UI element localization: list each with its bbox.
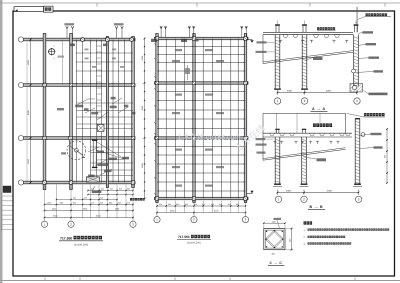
- section B-B stubs above beam: [275, 129, 306, 134]
- svg-text:660: 660: [109, 202, 112, 205]
- plan P1 dimension row 1: [44, 202, 134, 206]
- svg-text:345: 345: [91, 188, 94, 191]
- svg-text:960: 960: [168, 203, 171, 206]
- svg-text:960: 960: [194, 203, 197, 206]
- section A-A title: [311, 107, 328, 112]
- plan P2 under-beam column labels: [151, 39, 157, 42]
- plan P1 horizontal beam row A: [24, 38, 136, 41]
- plan P1 vertical bar detail with caps: [92, 140, 97, 169]
- section B-B right vertical dimension chain: [384, 128, 388, 184]
- section B-B column bases: [273, 184, 362, 187]
- plan P1 leader fan lines: [96, 142, 123, 161]
- section A-A column 3: [354, 35, 359, 87]
- plan P1 column nodes row D: [43, 181, 46, 184]
- section A-A column 1: [275, 35, 280, 89]
- plan P1 horizontal beam row C: [24, 137, 136, 140]
- svg-text:345: 345: [119, 188, 122, 191]
- section A-A top mid label: [317, 27, 336, 31]
- svg-text:2560: 2560: [115, 208, 119, 211]
- section A-A foundation label: [364, 91, 388, 96]
- plan P1 leader fan label: [123, 157, 130, 160]
- left margin mini title table: [2, 186, 13, 231]
- plan P1 left grid bubbles: [18, 37, 23, 42]
- sheet bottom edge line with fold ticks: [0, 278, 400, 281]
- plan P2 horizontal joists: [157, 47, 246, 192]
- section A-A right column footing hatched: [350, 84, 363, 93]
- plan P2 joist end dots: [158, 46, 244, 191]
- detail C-C inner square: [265, 230, 283, 248]
- svg-text:960: 960: [202, 203, 205, 206]
- plan P2 bottom beam: [155, 197, 249, 199]
- plan P1 dimension row 3 overall: [44, 215, 134, 219]
- plan P1 annotation cluster lower: [88, 147, 112, 175]
- svg-text:960: 960: [159, 203, 162, 206]
- plan P1 annotation cluster upper leaders: [75, 98, 128, 120]
- svg-text:B: B: [320, 205, 323, 209]
- plan P1 dashed circle detail: [67, 141, 86, 160]
- svg-text:2640: 2640: [52, 208, 56, 211]
- plan P1 vertical beam grid line mid: [106, 37, 108, 188]
- section B-B column 3 top cap: [355, 118, 360, 119]
- section A-A column 2: [302, 35, 307, 89]
- svg-text:6000: 6000: [286, 190, 292, 193]
- section A-A roof beam: [263, 32, 353, 34]
- plan P2 bottom grid bubbles: [154, 213, 249, 223]
- plan P1 annotation text blobs upper: [75, 105, 83, 108]
- section A-A column stubs above beam: [275, 21, 358, 33]
- notes header: [304, 221, 307, 224]
- plan P1 joist end dots: [76, 41, 132, 84]
- section B-B diagonal brace: [263, 149, 346, 160]
- svg-text:345: 345: [110, 188, 113, 191]
- plan P1 top callout pair 2: [115, 26, 123, 38]
- section A-A left side tiny labels: [257, 41, 267, 43]
- detail C-C right dimension: [286, 228, 293, 251]
- plan P1 mid-left cell label: [57, 108, 64, 110]
- plan P1 dimension row 0: [56, 197, 118, 201]
- section A-A grid bubbles: [274, 98, 280, 104]
- plan P1 horizontal beam row B: [24, 84, 136, 87]
- section A-A brace label: [305, 57, 323, 61]
- svg-text:B: B: [310, 205, 313, 209]
- plan P2 vertical beam middle: [193, 34, 195, 203]
- svg-text:345: 345: [127, 188, 130, 191]
- section A-A hook marks under beam: [279, 40, 349, 43]
- plan P1 dimension row 2: [44, 208, 134, 212]
- plan P2 outline top beam: [155, 37, 249, 39]
- plan P2 mid-span stub callouts: [187, 65, 189, 80]
- section B-B hook marks under beam: [273, 141, 339, 144]
- plan P2 vertical beam left edge: [156, 34, 158, 203]
- plan P1 sub dimension rows below beam: [87, 190, 133, 195]
- section B-B column 2: [302, 137, 307, 184]
- plan P2 bottom left black label: [130, 198, 132, 201]
- svg-text:717.550: 717.550: [178, 235, 190, 239]
- svg-text:960: 960: [185, 203, 188, 206]
- svg-text:960: 960: [219, 203, 222, 206]
- svg-text:3.: 3.: [304, 243, 306, 246]
- section A-A detail circles on right column: [352, 69, 356, 73]
- plan P1 secondary joists horizontal lower: [91, 147, 134, 176]
- plan P2 column nodes: [155, 37, 158, 40]
- section B-B black label box: [313, 123, 316, 127]
- plan P1 pipe detail circle top-left: [48, 45, 64, 60]
- plan P2 caption title: [177, 235, 211, 245]
- svg-text:900: 900: [384, 155, 387, 158]
- section B-B brace label: [303, 157, 326, 162]
- section A-A dimension line: [277, 90, 358, 96]
- svg-text:土木在线 co188.com: 土木在线 co188.com: [176, 134, 240, 142]
- plan P1 extension lines to dimensions: [45, 185, 134, 219]
- svg-text:2.: 2.: [304, 236, 306, 239]
- section B-B column 3 extended: [355, 119, 360, 184]
- plan P2 beam row 3: [155, 137, 249, 139]
- plan P1 left dimension chain: [27, 39, 32, 184]
- svg-text:960: 960: [60, 202, 63, 205]
- section B-B right side labels: [371, 133, 382, 135]
- svg-text:960: 960: [236, 203, 239, 206]
- svg-text:345: 345: [73, 197, 76, 200]
- section B-B column 1: [275, 137, 280, 184]
- plan P1 tiny cell dims NE: [85, 49, 89, 51]
- svg-text:(b=100,200): (b=100,200): [74, 243, 88, 246]
- detail C-C corner bolts: [265, 230, 283, 248]
- plan P1 column nodes row C: [43, 136, 46, 139]
- section B-B top chord line: [263, 113, 346, 160]
- section A-A right label leaders: [357, 32, 374, 72]
- svg-text:6000: 6000: [287, 90, 293, 93]
- svg-text:345: 345: [118, 202, 121, 205]
- title stamp box with glyphs: [44, 6, 54, 12]
- plan P1 top callout pair 1: [66, 26, 74, 38]
- svg-text:—: —: [274, 261, 277, 265]
- plan P2 extension lines below: [157, 201, 246, 213]
- section A-A diagonal brace: [263, 52, 353, 63]
- plan P1 ladder rungs detail: [97, 46, 102, 130]
- plan P2 thin vertical joist lines: [166, 39, 238, 199]
- svg-text:345: 345: [101, 188, 104, 191]
- plan P1 vertical beam grid line right: [132, 37, 135, 188]
- detail C-C diamond lacing: [265, 230, 283, 248]
- section B-B left tiny labels: [256, 138, 266, 140]
- plan P2 left dimension chain: [141, 38, 145, 200]
- plan P2 beam label blobs: [175, 49, 182, 51]
- plan P1 column node circles row A: [81, 38, 85, 42]
- section B-B grid bubbles: [275, 196, 281, 202]
- title strip box top-left: [14, 7, 44, 12]
- section B-B dimension line: [277, 190, 360, 196]
- svg-text:717.550: 717.550: [60, 236, 72, 240]
- svg-text:960: 960: [228, 203, 231, 206]
- note line 1: [304, 228, 390, 232]
- plan P2 dimension row 1: [156, 203, 246, 207]
- sheet left edge gray strip: [0, 0, 3, 283]
- plan P1 beam plate detail: [86, 177, 99, 182]
- plan P1 dashed circle label: [61, 152, 66, 154]
- svg-text:345: 345: [100, 202, 103, 205]
- plan P1 below-beam labels: [92, 191, 102, 193]
- svg-text:345: 345: [84, 197, 87, 200]
- section A-A right side labels: [363, 31, 374, 33]
- plan P2 vertical beam right edge: [244, 34, 246, 203]
- section A-A column bases: [274, 89, 308, 90]
- section B-B top right label: [347, 113, 386, 117]
- svg-text:770: 770: [127, 202, 130, 205]
- detail C-C top dimension: [263, 218, 286, 229]
- section B-B title: [308, 205, 325, 210]
- plan P1 bottom grid bubbles: [41, 218, 136, 227]
- plan P1 column nodes row B: [43, 83, 47, 87]
- svg-text:960: 960: [211, 203, 214, 206]
- svg-text:(b=100,200): (b=100,200): [187, 242, 201, 245]
- plan P1 horizontal beam row D: [24, 181, 136, 184]
- svg-text:A: A: [312, 107, 315, 111]
- svg-text:1340: 1340: [47, 202, 51, 205]
- svg-text:A: A: [323, 107, 326, 111]
- note line 3: [304, 242, 352, 246]
- note line 2: [304, 236, 346, 240]
- svg-text:345: 345: [100, 197, 103, 200]
- plan P1 small detail rect: [98, 125, 105, 132]
- plan P2 beam row 2: [155, 82, 249, 84]
- svg-text:960: 960: [176, 203, 179, 206]
- plan P1 caption title: [59, 236, 103, 247]
- svg-text:770: 770: [91, 202, 94, 205]
- plan P2 dimension row 2 overall: [156, 210, 246, 214]
- plan P1 under-beam column labels: [70, 44, 76, 47]
- section A-A left end vertical: [262, 35, 264, 64]
- detail C-C title: [268, 261, 285, 266]
- svg-text:840: 840: [73, 202, 76, 205]
- section A-A purlin clips under beam: [283, 35, 340, 38]
- detail C-C outer square: [264, 229, 285, 250]
- svg-text:1.: 1.: [304, 229, 306, 232]
- plan P1 vertical beam grid line 1: [43, 34, 46, 190]
- plan P1 vertical beam grid line 2: [70, 34, 73, 190]
- plan P1 secondary joists horizontal upper: [77, 53, 134, 129]
- svg-text:6000: 6000: [326, 90, 332, 93]
- plan P2 left edge hatch ticks: [154, 43, 156, 195]
- svg-text:3640: 3640: [83, 208, 87, 211]
- section A-A top right corner label with leader: [357, 7, 391, 32]
- section B-B roof beam with clips: [263, 133, 352, 137]
- sheet top edge line with fold ticks: [0, 3, 400, 7]
- plan P2 section cut marks right: [247, 40, 254, 194]
- plan P2 top callouts: [160, 26, 167, 37]
- svg-text:6000: 6000: [327, 190, 333, 193]
- plan P1 secondary joists vertical: [63, 40, 125, 183]
